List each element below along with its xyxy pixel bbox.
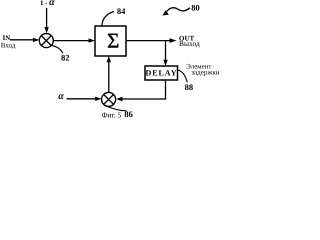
- wire multiplier 82 to summer 84: [53, 38, 95, 42]
- svg-text:DELAY: DELAY: [145, 69, 177, 78]
- leader and label 86: [106, 106, 133, 119]
- svg-text:86: 86: [124, 109, 132, 119]
- delay 88: [145, 66, 178, 80]
- wire IN into multiplier 82: [10, 38, 39, 42]
- wire multiplier 86 up into summer 84: [107, 56, 111, 93]
- node OUT / Выход: [179, 34, 200, 47]
- svg-text:84: 84: [117, 6, 126, 16]
- leader and label 88: [177, 70, 193, 92]
- wire delay 88 down and left into multiplier 86: [116, 80, 166, 101]
- wire branch from OUT down to delay 88: [163, 41, 167, 66]
- summer 84: [95, 26, 126, 56]
- svg-text:82: 82: [61, 53, 70, 63]
- node IN / Вход: [1, 35, 16, 49]
- svg-text:задержки: задержки: [191, 68, 219, 76]
- svg-text:1 - α: 1 - α: [40, 0, 55, 8]
- multiplier 86: [102, 92, 116, 106]
- multiplier 82: [39, 34, 53, 48]
- svg-text:Вход: Вход: [1, 42, 16, 50]
- label Элемент задержки: [186, 63, 220, 76]
- leader and label 84: [102, 6, 126, 26]
- wire summer 84 to OUT: [126, 38, 177, 43]
- svg-text:Выход: Выход: [179, 39, 200, 48]
- label 80 with squiggle leader: [162, 3, 199, 16]
- svg-text:80: 80: [191, 3, 200, 13]
- leader and label 82: [51, 45, 70, 62]
- svg-text:Σ: Σ: [107, 28, 119, 52]
- svg-text:Фиг. 5: Фиг. 5: [102, 111, 122, 120]
- svg-text:88: 88: [185, 82, 194, 92]
- svg-text:α: α: [58, 91, 64, 102]
- wire alpha into multiplier 86: [67, 97, 102, 101]
- wire 1-alpha into multiplier 82: [44, 8, 48, 33]
